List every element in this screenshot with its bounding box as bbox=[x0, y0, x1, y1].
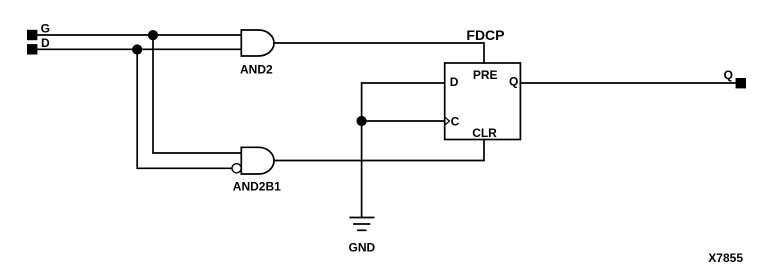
wire C pin horizontal bbox=[362, 120, 445, 122]
svg-text:D: D bbox=[450, 75, 459, 89]
svg-text:Q: Q bbox=[724, 68, 733, 82]
wire AND2 output to PRE pin bbox=[274, 43, 484, 63]
svg-text:AND2B1: AND2B1 bbox=[233, 180, 281, 194]
svg-text:Q: Q bbox=[509, 75, 518, 89]
input pin D square bbox=[27, 44, 37, 54]
ground symbol bbox=[350, 218, 373, 231]
wire D branch down to AND2B1 inverted input bbox=[137, 49, 232, 168]
svg-text:G: G bbox=[41, 22, 50, 36]
svg-text:C: C bbox=[451, 114, 460, 128]
svg-text:FDCP: FDCP bbox=[466, 27, 504, 43]
svg-text:CLR: CLR bbox=[472, 126, 497, 140]
svg-text:GND: GND bbox=[349, 241, 376, 255]
wire D input horizontal bbox=[37, 48, 241, 50]
wire G branch down to AND2B1 top input bbox=[153, 35, 241, 153]
wire G input horizontal bbox=[37, 34, 241, 36]
svg-text:X7855: X7855 bbox=[708, 251, 743, 265]
flip-flop U1 FDCP box bbox=[445, 63, 521, 140]
node junction GND to C bbox=[357, 116, 367, 126]
inverter bubble on AND2B1 input bbox=[232, 164, 241, 173]
clock wedge bbox=[445, 117, 450, 125]
node junction on G wire bbox=[148, 30, 158, 40]
node junction on D wire bbox=[132, 44, 142, 54]
and-gate AND2 bbox=[241, 30, 274, 56]
wire D pin to GND vertical bbox=[362, 83, 445, 218]
wire AND2B1 output to CLR pin bbox=[274, 140, 484, 161]
svg-text:AND2: AND2 bbox=[240, 63, 273, 77]
output pin Q square bbox=[736, 78, 746, 88]
and-gate AND2B1 bbox=[241, 147, 274, 174]
input pin G square bbox=[27, 30, 37, 40]
wire Q output horizontal bbox=[520, 82, 735, 84]
svg-text:D: D bbox=[41, 36, 50, 50]
svg-text:PRE: PRE bbox=[473, 68, 498, 82]
